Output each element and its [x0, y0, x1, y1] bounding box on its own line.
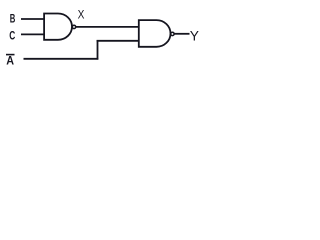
svg-text:X: X	[78, 7, 85, 21]
wire riser from A-bar up to U2 lower input	[97, 40, 99, 60]
svg-text:Y: Y	[190, 29, 199, 44]
wire X from U1 bubble to U2 top input	[76, 26, 140, 28]
NAND gate U1 body	[44, 14, 72, 40]
wire U2 lower input	[97, 40, 140, 42]
svg-text:A: A	[6, 53, 14, 67]
svg-text:B: B	[10, 12, 16, 26]
svg-text:C: C	[9, 29, 15, 43]
wire C to U1 input	[21, 33, 44, 35]
NAND gate U2 output bubble	[171, 32, 174, 35]
NAND gate U2 body	[139, 20, 171, 47]
wire A-bar horizontal run	[24, 58, 99, 60]
overline of A	[6, 54, 15, 56]
wire U2 output to Y	[174, 33, 189, 35]
NAND gate U1 output bubble	[72, 25, 75, 28]
wire B to U1 input	[21, 18, 44, 20]
